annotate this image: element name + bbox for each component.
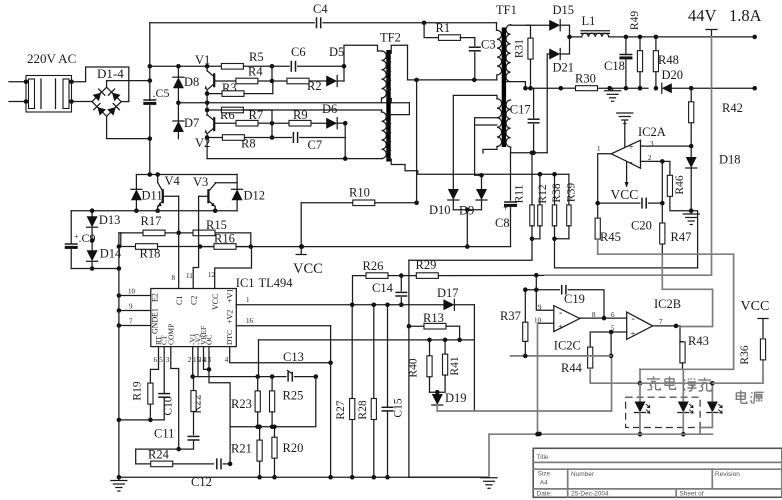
wire output + rail bbox=[609, 35, 757, 40]
resistor R25 bbox=[270, 377, 304, 427]
resistor R41 bbox=[430, 340, 462, 392]
svg-text:-: - bbox=[632, 314, 635, 325]
resistor R5 bbox=[221, 50, 274, 69]
svg-text:3: 3 bbox=[650, 140, 654, 148]
resistor R26 bbox=[353, 259, 404, 305]
svg-text:D8: D8 bbox=[184, 75, 199, 89]
svg-text:1: 1 bbox=[246, 296, 250, 304]
wire C3 bottom rail bbox=[440, 78, 497, 83]
svg-text:C15: C15 bbox=[393, 398, 405, 417]
label V3 bbox=[193, 175, 208, 189]
svg-text:L1: L1 bbox=[582, 14, 596, 28]
svg-text:-: - bbox=[629, 157, 632, 168]
wire R17 left spine join bbox=[119, 233, 121, 247]
resistor R44 bbox=[561, 332, 640, 383]
svg-text:C11: C11 bbox=[154, 427, 174, 441]
diode D11 bbox=[131, 175, 163, 214]
resistor R47 bbox=[660, 203, 692, 254]
power stub VCC IC2A bbox=[611, 162, 639, 203]
wire IC2A output bbox=[598, 154, 612, 203]
wire bridge - output down-right bbox=[107, 116, 153, 141]
label IC2B bbox=[654, 297, 681, 311]
label power bbox=[736, 390, 763, 404]
capacitor C13 bbox=[283, 350, 318, 382]
svg-text:C20: C20 bbox=[631, 219, 652, 233]
svg-text:3: 3 bbox=[166, 356, 170, 364]
svg-text:13: 13 bbox=[204, 356, 212, 364]
svg-text:VCC: VCC bbox=[611, 187, 639, 202]
wire IC2C output bbox=[580, 316, 627, 321]
transformer TF1 primary top winding bbox=[497, 23, 502, 80]
wire -V2 pin down bbox=[197, 347, 199, 377]
line filter T (220V AC input) bbox=[24, 76, 74, 113]
wire driver bottom rail bbox=[207, 156, 377, 161]
wire D15 cathode node bbox=[567, 25, 582, 39]
svg-text:C7: C7 bbox=[308, 138, 323, 152]
svg-text:R30: R30 bbox=[575, 72, 596, 86]
svg-text:4: 4 bbox=[225, 356, 229, 364]
wire IC1 pin16 +V2 bbox=[226, 310, 331, 326]
svg-text:1.8A: 1.8A bbox=[729, 6, 762, 25]
capacitor C11 bbox=[154, 427, 200, 450]
capacitor C18 bbox=[604, 37, 632, 88]
resistor R19 bbox=[132, 381, 154, 422]
svg-text:.C5: .C5 bbox=[153, 86, 170, 100]
resistor R10 bbox=[301, 186, 419, 206]
svg-text:DTC: DTC bbox=[225, 330, 234, 345]
LED charge bbox=[635, 383, 650, 436]
diode D9 bbox=[459, 173, 487, 218]
wire D10/D9 cathodes bbox=[453, 208, 481, 249]
svg-text:D6: D6 bbox=[322, 102, 337, 116]
svg-text:R1: R1 bbox=[436, 21, 451, 35]
label V2 bbox=[195, 136, 210, 150]
svg-text:R20: R20 bbox=[283, 441, 304, 455]
capacitor C7 bbox=[272, 132, 345, 152]
wire D6/C7 node to TF2 lower winding bbox=[344, 123, 346, 158]
wire bottom ground rail bbox=[117, 475, 489, 480]
svg-text:R28: R28 bbox=[357, 400, 369, 419]
svg-text:IC2A: IC2A bbox=[638, 125, 666, 139]
wire IC1 pin1 +V1 bbox=[226, 289, 251, 305]
svg-text:C1: C1 bbox=[175, 296, 184, 305]
wire left ground spine bbox=[117, 233, 122, 477]
svg-text:R31: R31 bbox=[514, 39, 526, 58]
wire IC2B +input bbox=[609, 330, 627, 359]
svg-text:C4: C4 bbox=[313, 2, 328, 16]
resistor R2 bbox=[272, 78, 326, 93]
wire R5/R4 junction bbox=[271, 66, 273, 81]
svg-text:R45: R45 bbox=[600, 230, 621, 244]
wire R10 right riser bbox=[416, 80, 418, 203]
wire RT pin to R19 bbox=[150, 347, 158, 383]
resistor R15 bbox=[193, 218, 251, 247]
svg-text:+: + bbox=[631, 329, 636, 339]
diode D12 bbox=[232, 175, 265, 211]
wire top rail left of C4 bbox=[150, 22, 314, 24]
svg-text:R42: R42 bbox=[722, 101, 743, 115]
IC1 bottom pin names bbox=[154, 324, 235, 364]
transformer TF1 core bbox=[502, 28, 506, 148]
resistor R40 bbox=[408, 340, 433, 392]
resistor R17 bbox=[121, 214, 193, 236]
svg-text:D13: D13 bbox=[99, 213, 121, 227]
svg-text:R36: R36 bbox=[739, 345, 751, 364]
svg-text:8: 8 bbox=[172, 274, 176, 282]
diode D17 bbox=[236, 286, 474, 310]
svg-text:IC2B: IC2B bbox=[654, 297, 681, 311]
svg-text:9: 9 bbox=[129, 303, 133, 311]
svg-text:R21: R21 bbox=[231, 442, 252, 456]
wire DC- down to driver rail bbox=[149, 139, 151, 175]
output terminal bbox=[706, 30, 717, 37]
svg-text:+: + bbox=[503, 203, 508, 213]
ground bottom left bbox=[111, 477, 127, 491]
svg-text:Date:: Date: bbox=[537, 491, 553, 498]
capacitor C10 bbox=[158, 394, 174, 420]
svg-text:D11: D11 bbox=[142, 189, 163, 203]
svg-text:+: + bbox=[628, 142, 633, 152]
svg-text:R19: R19 bbox=[132, 381, 144, 400]
svg-text:12: 12 bbox=[208, 271, 216, 279]
svg-text:D1-4: D1-4 bbox=[97, 66, 124, 81]
svg-text:D18: D18 bbox=[719, 153, 741, 167]
resistor R42 bbox=[689, 88, 743, 146]
wire filter top to D1-4 loop bbox=[72, 67, 129, 101]
LED dashed box bbox=[626, 397, 701, 427]
svg-text:6: 6 bbox=[611, 311, 615, 319]
resistor R13 bbox=[407, 311, 462, 342]
resistor R45 bbox=[595, 203, 621, 254]
svg-text:OC: OC bbox=[205, 335, 214, 345]
svg-text:D17: D17 bbox=[437, 286, 459, 300]
wire TF2 lower-right to divider rail bbox=[391, 159, 569, 174]
resistor R21 bbox=[231, 425, 262, 480]
diode D5 bbox=[326, 45, 344, 87]
wire driver top rail bbox=[136, 172, 237, 177]
svg-text:R37: R37 bbox=[500, 309, 521, 323]
ground at C18 bbox=[605, 88, 621, 101]
diode D18 bbox=[686, 146, 741, 213]
wire IC2C +input bbox=[538, 323, 554, 434]
svg-text:R12: R12 bbox=[537, 184, 549, 203]
svg-text:C14: C14 bbox=[372, 281, 394, 295]
resistor R22 bbox=[191, 377, 204, 435]
resistor R27 bbox=[335, 303, 355, 478]
svg-text:R41: R41 bbox=[449, 356, 461, 375]
wire IC1 pin7 GND bbox=[117, 316, 160, 334]
power tap VCC at IC1 bbox=[293, 247, 323, 277]
transformer TF2 lower-left winding bbox=[378, 110, 387, 159]
svg-text:C6: C6 bbox=[291, 45, 306, 59]
svg-text:TF2: TF2 bbox=[380, 31, 401, 45]
svg-text:R49: R49 bbox=[629, 11, 641, 30]
svg-text:V4: V4 bbox=[165, 174, 181, 188]
wire IC1 pin11 C2 bbox=[186, 196, 199, 305]
wire IC1 pin10 E2 bbox=[117, 288, 160, 303]
resistor R43 bbox=[680, 326, 709, 397]
op-amp IC2A bbox=[597, 140, 654, 168]
ground below D18 bbox=[683, 211, 699, 225]
svg-text:7: 7 bbox=[659, 318, 663, 326]
svg-text:C17: C17 bbox=[510, 103, 531, 117]
resistor R48 bbox=[653, 37, 679, 91]
svg-text:+V1: +V1 bbox=[226, 289, 235, 303]
capacitor C6 bbox=[272, 45, 344, 72]
ground above IC2A bbox=[617, 113, 633, 147]
svg-text:.C9: .C9 bbox=[79, 231, 96, 245]
label 44V 1.8A bbox=[688, 6, 762, 25]
resistor R16 bbox=[200, 232, 251, 250]
diode D6 bbox=[322, 102, 348, 129]
wire IC1 pin8 C1 bbox=[172, 196, 185, 305]
resistor R38 bbox=[551, 172, 563, 241]
transformer TF1 secondary top winding bbox=[506, 25, 526, 82]
resistor R7 bbox=[214, 108, 274, 126]
svg-text:9: 9 bbox=[538, 304, 542, 312]
svg-text:R39: R39 bbox=[566, 183, 578, 202]
resistor R20 bbox=[272, 425, 303, 480]
svg-text:R27: R27 bbox=[335, 400, 347, 419]
svg-text:R47: R47 bbox=[671, 230, 692, 244]
transistor V2 bbox=[205, 110, 215, 138]
wire top rail right of C4 bbox=[323, 21, 497, 26]
capacitor C20 bbox=[595, 198, 664, 233]
svg-text:D5: D5 bbox=[329, 45, 344, 59]
svg-text:+: + bbox=[74, 232, 79, 241]
wire LED return rail bbox=[489, 432, 712, 437]
wire ground rail riser bbox=[691, 211, 697, 268]
resistor R11 bbox=[514, 153, 535, 241]
wire TF1 lower tap bbox=[475, 118, 497, 176]
svg-text:16: 16 bbox=[246, 317, 254, 325]
wire pin16 drop to ground rail bbox=[328, 326, 333, 480]
wire feedback rail gray bbox=[545, 274, 712, 276]
svg-text:VCC: VCC bbox=[741, 299, 770, 314]
label TF2 bbox=[380, 31, 401, 45]
svg-text:TF1: TF1 bbox=[496, 3, 517, 17]
transformer TF1 primary bottom winding bbox=[453, 95, 501, 175]
wire IC1 pin2 -V1 down bbox=[190, 347, 195, 379]
svg-text:D15: D15 bbox=[553, 3, 575, 17]
title block bbox=[533, 448, 782, 497]
wire divider mid to feedback bbox=[409, 239, 532, 260]
svg-text:TL494: TL494 bbox=[259, 276, 294, 290]
svg-text:D10: D10 bbox=[429, 203, 451, 217]
wire IC2B output bbox=[653, 324, 680, 329]
wire TF1 lower-left bottom stub bbox=[483, 147, 497, 154]
svg-text:R40: R40 bbox=[408, 358, 420, 377]
svg-text:Revision: Revision bbox=[715, 471, 740, 478]
wire R19/C10 rail bbox=[117, 418, 165, 423]
resistor R12 bbox=[532, 172, 549, 239]
svg-text:R44: R44 bbox=[561, 361, 583, 375]
svg-text:R43: R43 bbox=[688, 334, 709, 348]
wire C13 right drop bbox=[230, 377, 316, 430]
svg-text:R23: R23 bbox=[231, 397, 252, 411]
diode D13 bbox=[87, 211, 121, 251]
wire IC1 pin12 VCC bbox=[208, 247, 252, 310]
svg-text:R17: R17 bbox=[141, 214, 162, 228]
wire COMP pin down bbox=[171, 347, 181, 452]
svg-text:44V: 44V bbox=[688, 6, 717, 25]
wire driver emitter rail bbox=[71, 208, 237, 213]
resistor R3 bbox=[205, 81, 273, 96]
wire OC pin down bbox=[208, 347, 210, 370]
diode D10 bbox=[429, 175, 459, 217]
svg-text:+: + bbox=[558, 322, 563, 332]
svg-text:R46: R46 bbox=[674, 175, 686, 194]
diode D21 bbox=[547, 37, 574, 153]
resistor R31 bbox=[514, 25, 534, 90]
capacitor C17 bbox=[510, 88, 540, 155]
wire V2 rail to TF2 lower-left bbox=[221, 109, 381, 111]
svg-text:R48: R48 bbox=[658, 53, 679, 67]
svg-text:C3: C3 bbox=[481, 38, 496, 52]
diode D15 bbox=[526, 3, 574, 31]
resistor R8 bbox=[205, 135, 272, 151]
label float-charge bbox=[683, 378, 711, 392]
wire DC+ bus vertical x150 bbox=[148, 23, 153, 101]
svg-text:D12: D12 bbox=[244, 189, 266, 203]
wire R38/R39 to ground rail bbox=[555, 239, 698, 268]
resistor R1 bbox=[424, 21, 475, 40]
wire R10 left to VCC rail bbox=[299, 203, 304, 249]
op-amp IC2C bbox=[534, 304, 596, 353]
label V1 bbox=[195, 53, 210, 67]
svg-text:D20: D20 bbox=[662, 68, 684, 82]
svg-text:IC1: IC1 bbox=[236, 276, 255, 290]
resistor R37 bbox=[500, 287, 528, 355]
transformer TF1 secondary bottom winding bbox=[506, 100, 547, 155]
svg-text:25-Dec-2004: 25-Dec-2004 bbox=[571, 491, 609, 498]
wire bridge right vertex to loop bbox=[121, 101, 129, 103]
LED float bbox=[678, 397, 693, 437]
capacitor C8 bbox=[495, 153, 517, 247]
wire AC input stubs bbox=[9, 82, 26, 102]
diode D14 bbox=[87, 247, 122, 271]
svg-text:D19: D19 bbox=[445, 391, 467, 405]
resistor R28 bbox=[357, 303, 376, 478]
resistor R30 bbox=[559, 72, 649, 91]
svg-text:R25: R25 bbox=[283, 389, 304, 403]
resistor R9 bbox=[272, 108, 326, 126]
svg-text:6: 6 bbox=[154, 356, 158, 364]
wire V2 collector rail bbox=[205, 108, 222, 113]
resistor R36 bbox=[712, 299, 769, 383]
wire output - rail bbox=[691, 86, 757, 91]
wire bridge + output to DC bus bbox=[107, 78, 153, 87]
wire IC2A pin2 bbox=[641, 159, 665, 203]
svg-text:-: - bbox=[559, 308, 562, 319]
diode D19 bbox=[432, 390, 467, 411]
svg-text:C2: C2 bbox=[190, 296, 199, 305]
wire +V1 rail drop bbox=[473, 305, 475, 411]
wire filter bottom to bridge left bbox=[72, 101, 93, 103]
svg-text:Sheet of: Sheet of bbox=[679, 491, 703, 498]
wire divider drop x409 bbox=[408, 260, 410, 477]
wire LED1 riser bbox=[638, 369, 643, 385]
svg-text:1: 1 bbox=[597, 145, 601, 153]
svg-text:R10: R10 bbox=[349, 186, 370, 200]
svg-text:220V AC: 220V AC bbox=[27, 51, 76, 66]
svg-text:R29: R29 bbox=[416, 258, 437, 272]
svg-text:R26: R26 bbox=[363, 259, 384, 273]
resistor R4 bbox=[214, 64, 274, 83]
capacitor C19 bbox=[525, 285, 604, 318]
wire IC1 pin9 E1 bbox=[117, 303, 160, 318]
wire TF1 center tap to R30 rail bbox=[506, 82, 561, 91]
svg-text:C13: C13 bbox=[283, 350, 304, 364]
label IC2A bbox=[638, 125, 666, 139]
label V4 bbox=[165, 174, 181, 188]
wire ground rail corner bbox=[409, 476, 489, 478]
wire C9 bottom rail bbox=[71, 268, 119, 270]
wire LED feed rail bbox=[640, 381, 715, 386]
wire 44V sense line bbox=[711, 37, 713, 275]
svg-text:A4: A4 bbox=[540, 480, 548, 487]
transformer TF2 core bbox=[386, 50, 390, 162]
svg-text:11: 11 bbox=[186, 272, 193, 280]
svg-text:5: 5 bbox=[159, 356, 163, 364]
transistor V1 bbox=[205, 66, 215, 103]
resistor R39 bbox=[555, 174, 578, 239]
capacitor C14 bbox=[372, 276, 407, 308]
resistor R24 bbox=[136, 448, 214, 467]
svg-text:10: 10 bbox=[128, 288, 136, 296]
wire R6/R7/R8 junction bbox=[270, 110, 275, 140]
wire LED return to ground bbox=[481, 434, 497, 488]
wire half-bridge mid rail bbox=[178, 101, 409, 106]
wire mid to V2 bbox=[206, 103, 208, 110]
resistor R6 bbox=[220, 107, 272, 122]
capacitor C5 bbox=[143, 86, 169, 139]
svg-text:+V2: +V2 bbox=[226, 310, 235, 324]
wire rail corner to C9 bbox=[70, 211, 72, 244]
inductor L1 bbox=[581, 14, 609, 37]
resistor R29 bbox=[401, 258, 545, 278]
label charge bbox=[647, 376, 676, 390]
svg-text:VCC: VCC bbox=[211, 294, 220, 310]
svg-text:Number: Number bbox=[571, 471, 595, 478]
wire IC2A pin3 bbox=[641, 144, 694, 149]
resistor R18 bbox=[119, 244, 202, 261]
svg-text:D7: D7 bbox=[184, 116, 199, 130]
transformer TF2 upper-right winding bbox=[386, 45, 407, 103]
wire VCC rail bbox=[200, 244, 510, 249]
label IC1 TL494 bbox=[236, 276, 293, 290]
LED power bbox=[700, 383, 722, 434]
svg-text:GND: GND bbox=[151, 316, 160, 334]
capacitor C3 bbox=[469, 38, 496, 80]
label 220V AC bbox=[27, 51, 76, 66]
diode D8 bbox=[173, 66, 199, 103]
op-amp IC2B bbox=[611, 311, 663, 339]
svg-text:C19: C19 bbox=[564, 292, 585, 306]
wire rail y356 bbox=[511, 354, 612, 359]
wire VREF staircase bbox=[204, 347, 231, 427]
wire TF2 aux to C3 node bbox=[408, 45, 475, 82]
svg-text:COMP: COMP bbox=[166, 324, 175, 345]
diode D7 bbox=[173, 101, 199, 139]
transformer TF2 lower-right winding bbox=[386, 103, 409, 160]
wire CT pin to C10 bbox=[163, 347, 165, 394]
svg-text:IC2C: IC2C bbox=[554, 339, 581, 353]
svg-text:Title: Title bbox=[537, 454, 549, 461]
wire DTC pin bbox=[230, 347, 331, 363]
capacitor C4 bbox=[313, 2, 328, 28]
wire V2 emitter to bottom rail bbox=[206, 138, 208, 159]
